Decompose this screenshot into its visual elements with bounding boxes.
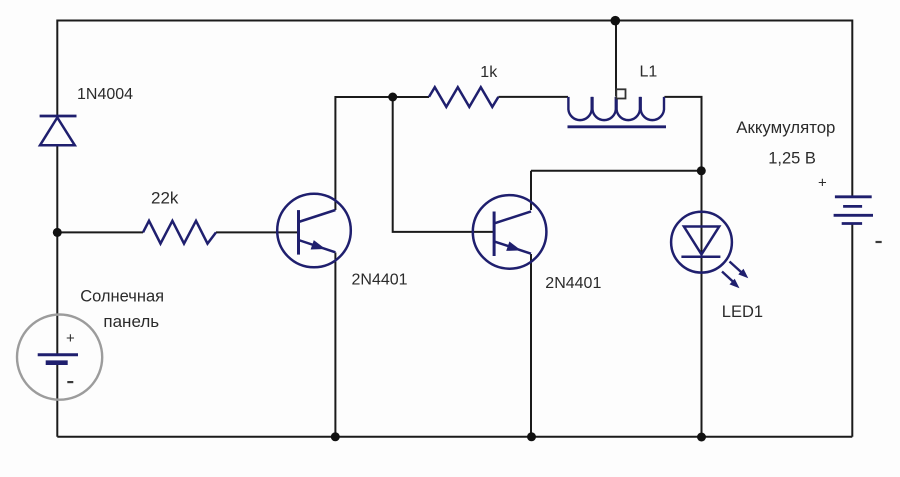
svg-text:2N4401: 2N4401 <box>352 271 408 288</box>
svg-text:+: + <box>818 175 827 192</box>
svg-text:L1: L1 <box>640 64 658 81</box>
svg-text:22k: 22k <box>151 188 179 207</box>
svg-text:LED1: LED1 <box>722 303 763 321</box>
svg-text:2N4401: 2N4401 <box>545 275 601 292</box>
svg-text:1,25 В: 1,25 В <box>768 150 816 168</box>
svg-text:+: + <box>66 330 75 347</box>
svg-text:Аккумулятор: Аккумулятор <box>736 118 835 137</box>
svg-text:панель: панель <box>103 312 159 331</box>
svg-text:1N4004: 1N4004 <box>77 86 133 103</box>
svg-text:Солнечная: Солнечная <box>80 288 164 306</box>
svg-text:1k: 1k <box>480 64 498 81</box>
